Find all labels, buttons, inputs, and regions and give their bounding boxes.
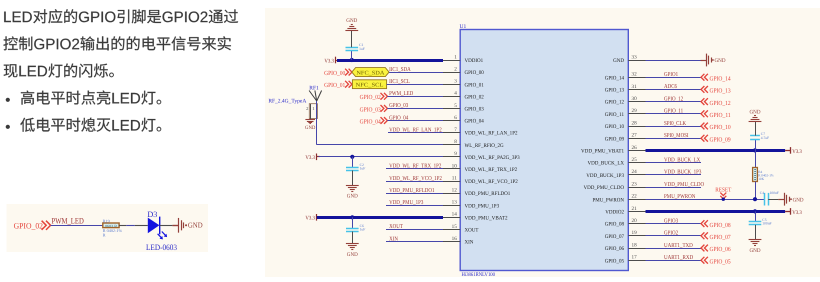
svg-text:GPIO_11: GPIO_11 — [664, 109, 683, 115]
svg-text:VDD_BUCK_1P3: VDD_BUCK_1P3 — [586, 173, 624, 179]
power port V3.3 (pin 21) — [785, 211, 791, 213]
svg-text:GPIO_13: GPIO_13 — [605, 88, 625, 94]
pin 27 GPIO_09 stub — [628, 138, 645, 140]
pin 8 WL_RF_RFIO_2G stub — [443, 144, 460, 146]
junction node RESET on PMU_PWRON — [722, 198, 725, 201]
svg-text:GPIO1: GPIO1 — [664, 72, 678, 78]
svg-text:5: 5 — [454, 103, 457, 109]
pin 9 VDD_WL_RF_PA2G_3P3 stub — [443, 156, 460, 158]
svg-text:GPIO_12: GPIO_12 — [605, 100, 625, 106]
svg-text:14: 14 — [452, 212, 458, 218]
svg-text:SPI0_MOSI: SPI0_MOSI — [664, 133, 689, 139]
svg-text:VDD_PMU_1P3: VDD_PMU_1P3 — [465, 203, 500, 209]
pin 26 VDD_PMU_VBAT1 stub — [628, 150, 645, 152]
svg-text:1: 1 — [454, 54, 457, 60]
svg-text:GPIO_13: GPIO_13 — [710, 88, 731, 95]
wire capacitor C7 to ground — [755, 122, 757, 136]
svg-text:VDD_PMU_CLDO: VDD_PMU_CLDO — [584, 185, 625, 191]
svg-text:PWM_LED: PWM_LED — [389, 91, 414, 97]
svg-text:19: 19 — [632, 230, 638, 236]
pin 1 VDDIO1 stub — [443, 60, 460, 62]
svg-text:28: 28 — [632, 120, 638, 126]
pin 25 VDD_BUCK_LX stub — [628, 162, 645, 164]
svg-text:GPIO_14: GPIO_14 — [605, 75, 625, 81]
svg-text:UART1_TXD: UART1_TXD — [664, 243, 693, 249]
bullet point 2 — [6, 125, 10, 129]
wire capacitor C6 to ground — [352, 232, 354, 244]
wire GPIO_02 to resistor R19 — [51, 225, 103, 227]
svg-text:WL_RF_RFIO_2G: WL_RF_RFIO_2G — [465, 143, 504, 149]
pin 29 GPIO_11 stub — [628, 113, 645, 115]
svg-text:GPIO2: GPIO2 — [664, 231, 678, 237]
wire IIC1_SDA — [389, 72, 443, 74]
svg-text:GPIO_14: GPIO_14 — [710, 75, 732, 82]
ground below C2 — [346, 185, 359, 187]
svg-text:GPIO_03: GPIO_03 — [465, 107, 485, 113]
ground below C6 — [346, 243, 359, 245]
svg-text:GPIO_07: GPIO_07 — [605, 234, 625, 240]
svg-text:17: 17 — [632, 255, 638, 261]
antenna RF1 symbol — [309, 91, 322, 102]
port GPIO_14 — [701, 74, 708, 81]
svg-text:VDD_WL_RF_LAN_1P2: VDD_WL_RF_LAN_1P2 — [389, 127, 442, 133]
wire VDD_WL_RF_VCO_1P2 — [386, 181, 443, 183]
svg-text:GND: GND — [347, 252, 358, 258]
svg-text:VDD_WL_RF_PA2G_3P3: VDD_WL_RF_PA2G_3P3 — [465, 155, 520, 161]
svg-text:VDD_PMU_VBAT1: VDD_PMU_VBAT1 — [581, 149, 624, 155]
junction node on pin 14 bus — [350, 215, 354, 219]
svg-text:GPIO_03: GPIO_03 — [389, 103, 408, 109]
svg-text:27: 27 — [632, 133, 638, 139]
svg-text:IIC1_SCL: IIC1_SCL — [389, 79, 410, 85]
svg-text:RESET: RESET — [715, 187, 731, 193]
svg-text:18: 18 — [632, 242, 638, 248]
pin 20 GPIO_08 stub — [628, 223, 645, 225]
ground below antenna — [305, 119, 315, 121]
svg-text:30: 30 — [632, 96, 638, 102]
wire V3.3 bus to pin 14 — [317, 216, 443, 219]
svg-text:C4: C4 — [760, 191, 764, 195]
svg-text:R: R — [103, 233, 106, 238]
wire UART1_TXD — [646, 248, 702, 250]
svg-text:GPIO_06: GPIO_06 — [710, 246, 731, 253]
LED D3 light arrows — [158, 234, 162, 238]
svg-text:V3.3: V3.3 — [324, 58, 334, 64]
svg-text:GPIO_08: GPIO_08 — [605, 222, 625, 228]
wire junction to capacitor C2 — [352, 157, 354, 167]
svg-text:GPIO_02: GPIO_02 — [360, 94, 381, 101]
wire antenna pin 1 down — [316, 101, 318, 145]
svg-text:GPIO_07: GPIO_07 — [710, 234, 731, 241]
LED D3 — [148, 218, 160, 234]
svg-text:GPIO_00: GPIO_00 — [465, 70, 485, 76]
pin 16 XIN stub — [443, 241, 460, 243]
pin 3 GPIO_01 stub — [443, 84, 460, 86]
svg-text:7: 7 — [454, 127, 457, 133]
svg-text:RF1: RF1 — [309, 85, 319, 91]
port GPIO_09 — [701, 135, 708, 142]
junction node on pin 21 bus — [753, 209, 757, 213]
svg-text:1uF: 1uF — [360, 228, 366, 232]
wire resistor R4 to PMU_PWRON net — [755, 182, 757, 200]
svg-text:10K: 10K — [758, 177, 764, 181]
svg-text:23: 23 — [632, 181, 638, 187]
svg-text:21: 21 — [632, 206, 638, 212]
svg-text:32: 32 — [632, 72, 638, 78]
wire capacitor C1 to ground — [351, 30, 353, 47]
pin 2 GPIO_00 stub — [443, 72, 460, 74]
pin 12 VDD_PMU_RFLDO1 stub — [443, 193, 460, 195]
pin 28 GPIO_10 stub — [628, 126, 645, 128]
pin 33 GND stub — [628, 60, 645, 62]
pin 5 GPIO_03 stub — [443, 108, 460, 110]
svg-text:15: 15 — [452, 224, 458, 230]
svg-text:VDD_WL_RF_VCO_1P2: VDD_WL_RF_VCO_1P2 — [389, 176, 442, 182]
wire GPIO_11 — [646, 113, 702, 115]
wire VDD_BUCK_LX — [646, 162, 702, 164]
capacitor C2 — [346, 167, 359, 169]
svg-text:16: 16 — [452, 236, 458, 242]
svg-text:0603 R: 0603 R — [105, 224, 118, 228]
pin 6 GPIO_04 stub — [443, 120, 460, 122]
junction node resistor R4 on PMU_PWRON — [753, 197, 757, 201]
svg-text:8: 8 — [454, 139, 457, 145]
svg-text:PWM_LED: PWM_LED — [52, 217, 84, 226]
wire VDD_PMU_CLDO — [646, 187, 702, 189]
svg-text:ADC6: ADC6 — [664, 84, 677, 90]
svg-text:4: 4 — [454, 91, 457, 97]
wire SPI0_CLK — [646, 126, 702, 128]
svg-text:VDD_PMU_1P3: VDD_PMU_1P3 — [389, 200, 423, 206]
ground above C7 — [749, 121, 762, 123]
svg-text:GPIO_04: GPIO_04 — [465, 119, 485, 125]
svg-text:VDDIO2: VDDIO2 — [605, 210, 624, 216]
svg-text:12: 12 — [452, 188, 458, 194]
svg-text:V3.3: V3.3 — [305, 216, 315, 222]
Chinese description text — [4, 9, 238, 23]
wire LED D3 to ground — [160, 225, 173, 227]
pin 21 VDDIO2 stub — [628, 211, 645, 213]
svg-text:6: 6 — [454, 115, 457, 121]
svg-text:LED-0603: LED-0603 — [146, 243, 177, 252]
svg-text:100nF: 100nF — [770, 191, 779, 195]
svg-text:9: 9 — [454, 151, 457, 157]
main schematic cream background — [265, 8, 820, 277]
ground at pin 33 — [701, 60, 707, 62]
svg-text:VDD_WL_RF_TRX_1P2: VDD_WL_RF_TRX_1P2 — [389, 164, 441, 170]
svg-text:GPIO_00: GPIO_00 — [324, 70, 345, 77]
port GPIO_11 — [701, 110, 708, 117]
wire PMU_PWRON — [646, 199, 765, 201]
junction node on pin 26 bus — [753, 148, 757, 152]
wire GPIO_04 — [387, 120, 443, 122]
wire VDD_PMU_1P3 — [386, 205, 443, 207]
pin 19 GPIO_07 stub — [628, 235, 645, 237]
wire pin 33 to ground — [646, 60, 701, 62]
port GPIO_10 — [701, 123, 708, 130]
svg-text:XOUT: XOUT — [389, 224, 403, 230]
pin 15 XOUT stub — [443, 229, 460, 231]
ground right of LED (GND) — [172, 225, 178, 227]
svg-text:V3.3: V3.3 — [792, 210, 802, 216]
svg-text:20: 20 — [632, 218, 638, 224]
wire junction down to capacitor C5 — [755, 211, 757, 221]
svg-text:GPIO_04: GPIO_04 — [389, 115, 408, 121]
wire V3.3 to pin 9 — [319, 156, 444, 158]
svg-text:29: 29 — [632, 108, 638, 114]
svg-text:R19: R19 — [103, 218, 110, 223]
svg-text:VDD_BUCK_LX: VDD_BUCK_LX — [664, 157, 701, 163]
svg-text:GPIO_05: GPIO_05 — [710, 258, 731, 265]
svg-text:XOUT: XOUT — [465, 228, 480, 234]
svg-text:GPIO_09: GPIO_09 — [605, 136, 625, 142]
pin 30 GPIO_12 stub — [628, 101, 645, 103]
svg-text:3: 3 — [454, 79, 457, 85]
capacitor C6 — [346, 228, 359, 230]
svg-text:PMU_PWRON: PMU_PWRON — [593, 197, 625, 203]
svg-text:GPIO_02: GPIO_02 — [14, 221, 43, 230]
pin 23 VDD_PMU_CLDO stub — [628, 187, 645, 189]
highlight tag NFC_SCL — [352, 80, 386, 89]
svg-text:VDDIO1: VDDIO1 — [465, 58, 484, 64]
power port V3.3 (pin 26) — [785, 150, 791, 152]
capacitor C1 — [346, 47, 359, 49]
svg-text:GPIO_10: GPIO_10 — [710, 124, 731, 131]
svg-text:RF_2.4G_TypeA: RF_2.4G_TypeA — [268, 99, 306, 105]
svg-text:SPI0_CLK: SPI0_CLK — [664, 121, 687, 127]
capacitor C5 — [749, 221, 762, 223]
svg-text:25: 25 — [632, 157, 638, 163]
svg-text:VDD_WL_RF_TRX_1P2: VDD_WL_RF_TRX_1P2 — [465, 167, 518, 173]
wire GPIO2 — [646, 235, 702, 237]
pin 11 VDD_WL_RF_VCO_1P2 stub — [443, 181, 460, 183]
svg-text:V3.3: V3.3 — [305, 155, 315, 161]
svg-text:26: 26 — [632, 145, 638, 151]
svg-text:GPIO_09: GPIO_09 — [710, 136, 731, 143]
wire antenna pin 2 to ground — [310, 104, 312, 120]
pin 24 VDD_BUCK_1P3 stub — [628, 174, 645, 176]
svg-text:PMU_PWRON: PMU_PWRON — [664, 194, 696, 200]
bullet point 1 — [6, 98, 10, 102]
svg-text:10: 10 — [452, 163, 458, 169]
wire capacitor C4 to ground — [768, 199, 778, 201]
antenna RF1 body outline — [309, 104, 317, 119]
svg-text:U1: U1 — [460, 24, 467, 30]
wire GPIO_03 — [387, 108, 443, 110]
svg-text:2: 2 — [454, 67, 457, 73]
pin 10 VDD_WL_RF_TRX_1P2 stub — [443, 168, 460, 170]
port GPIO_12 — [701, 98, 708, 105]
junction node on V3.3 bus — [350, 58, 354, 62]
pin 17 GPIO_05 stub — [628, 260, 645, 262]
svg-text:GPIO_04: GPIO_04 — [360, 118, 382, 125]
svg-text:24: 24 — [632, 169, 638, 175]
wire resistor R19 to LED D3 — [119, 225, 126, 227]
port GPIO_13 — [701, 86, 708, 93]
svg-text:VDD_PMU_RFLDO1: VDD_PMU_RFLDO1 — [389, 188, 434, 194]
svg-text:GPIO_05: GPIO_05 — [605, 258, 625, 264]
port GPIO_06 — [701, 245, 708, 252]
wire capacitor C2 to ground — [352, 171, 354, 186]
svg-text:GND: GND — [188, 221, 203, 230]
ground above C1 — [345, 30, 358, 32]
svg-text:XIN: XIN — [465, 240, 474, 246]
pin 22 PMU_PWRON stub — [628, 199, 645, 201]
pin 18 GPIO_06 stub — [628, 248, 645, 250]
svg-text:IIC1_SDA: IIC1_SDA — [389, 67, 411, 73]
svg-text:GPIO_02: GPIO_02 — [465, 94, 485, 100]
wire XIN — [386, 241, 443, 243]
svg-text:VDD_WL_RF_VCO_1P2: VDD_WL_RF_VCO_1P2 — [465, 179, 519, 185]
svg-text:GND: GND — [715, 58, 726, 64]
svg-text:XIN: XIN — [389, 236, 398, 242]
svg-text:GND: GND — [750, 109, 761, 115]
pin 31 GPIO_13 stub — [628, 89, 645, 91]
svg-text:VDD_BUCK_1P3: VDD_BUCK_1P3 — [664, 170, 701, 176]
svg-text:GPIO_01: GPIO_01 — [324, 82, 345, 89]
svg-text:GPIO_12: GPIO_12 — [664, 96, 683, 102]
svg-text:GND: GND — [346, 18, 357, 24]
svg-text:GPIO3: GPIO3 — [664, 218, 678, 224]
pin 14 VDD_PMU_VBAT2 stub — [443, 217, 460, 219]
junction node (pin 9 rail) — [350, 155, 354, 159]
resistor R19 — [103, 223, 119, 228]
wire GPIO3 — [646, 223, 702, 225]
svg-text:R 0402-1%: R 0402-1% — [103, 228, 123, 233]
svg-text:11: 11 — [452, 175, 457, 181]
svg-text:1uF: 1uF — [359, 47, 365, 51]
svg-text:GPIO_12: GPIO_12 — [710, 100, 731, 107]
wire VDD_PMU_RFLDO1 — [386, 193, 443, 195]
svg-text:1uF: 1uF — [360, 167, 366, 171]
wire VDD_BUCK_1P3 — [646, 174, 702, 176]
wire junction up to capacitor C7 — [755, 139, 757, 150]
port GPIO_08 — [701, 220, 708, 227]
wire V3.3 bus from pin 21 — [646, 210, 786, 213]
svg-text:NFC_SDA: NFC_SDA — [356, 70, 384, 76]
svg-text:VDD_PMU_CLDO: VDD_PMU_CLDO — [664, 182, 705, 188]
wire capacitor C5 to ground — [755, 225, 757, 240]
svg-text:D3: D3 — [147, 210, 157, 219]
svg-text:GPIO_01: GPIO_01 — [465, 82, 485, 88]
wire antenna to pin 8 WL_RF_RFIO_2G — [317, 144, 443, 146]
wire UART1_RXD — [646, 260, 702, 262]
wire VDD_WL_RF_TRX_1P2 — [386, 168, 443, 170]
svg-text:GND: GND — [613, 58, 624, 64]
pin 13 VDD_PMU_1P3 stub — [443, 205, 460, 207]
wire V3.3 bus to pin 1 — [337, 59, 443, 62]
svg-text:100nF: 100nF — [762, 222, 771, 226]
capacitor C4 — [764, 193, 766, 206]
svg-text:4.7uF: 4.7uF — [761, 136, 769, 140]
wire junction to capacitor C1 — [351, 51, 353, 60]
svg-text:VDD_WL_RF_LAN_1P2: VDD_WL_RF_LAN_1P2 — [465, 131, 518, 137]
capacitor C7 — [750, 139, 760, 141]
svg-text:31: 31 — [632, 84, 638, 90]
highlight tag NFC_SDA — [352, 68, 389, 77]
wire XOUT — [386, 229, 443, 231]
pin 32 GPIO_14 stub — [628, 77, 645, 79]
svg-text:Hi3861RNLV100: Hi3861RNLV100 — [462, 272, 496, 278]
svg-text:GND: GND — [793, 197, 804, 203]
ground below C5 — [749, 239, 762, 241]
wire GPIO_12 — [646, 101, 702, 103]
svg-text:GND: GND — [750, 248, 761, 254]
svg-text:VDD_BUCK_LX: VDD_BUCK_LX — [588, 161, 625, 167]
svg-text:GPIO_11: GPIO_11 — [710, 112, 731, 119]
svg-text:33: 33 — [632, 54, 638, 60]
svg-text:13: 13 — [452, 200, 458, 206]
svg-text:V3.3: V3.3 — [792, 149, 802, 155]
svg-text:22: 22 — [632, 194, 638, 200]
op-amp U1 body (Hi3861 IC) — [460, 30, 628, 271]
svg-text:GPIO_11: GPIO_11 — [605, 112, 625, 118]
wire junction down to resistor R4 — [755, 150, 757, 167]
svg-text:GND: GND — [347, 194, 358, 200]
wire ADC6 — [646, 89, 702, 91]
wire VDD_WL_RF_LAN_1P2 — [388, 132, 443, 134]
wire PWM_LED — [387, 96, 443, 98]
svg-text:GND: GND — [305, 125, 316, 131]
pin 7 VDD_WL_RF_LAN_1P2 stub — [443, 132, 460, 134]
wire V3.3 bus from pin 26 — [646, 149, 786, 152]
svg-text:GPIO_08: GPIO_08 — [710, 222, 731, 229]
svg-text:NFC_SCL: NFC_SCL — [356, 82, 385, 88]
svg-text:GPIO_06: GPIO_06 — [605, 246, 625, 252]
pin 4 GPIO_02 stub — [443, 96, 460, 98]
svg-text:GPIO_10: GPIO_10 — [605, 124, 625, 130]
wire SPI0_MOSI — [646, 138, 702, 140]
resistor R4 — [753, 168, 758, 182]
LED sub-circuit cream background — [7, 204, 209, 252]
port GPIO_05 — [701, 257, 708, 264]
wire junction to capacitor C6 — [352, 217, 354, 228]
ground right of C4 — [778, 199, 784, 201]
wire GPIO1 — [646, 77, 702, 79]
port GPIO_07 — [701, 232, 708, 239]
svg-text:VDD_PMU_VBAT2: VDD_PMU_VBAT2 — [465, 215, 508, 221]
svg-text:UART1_RXD: UART1_RXD — [664, 255, 694, 261]
svg-text:GPIO_03: GPIO_03 — [360, 106, 381, 113]
svg-text:VDD_PMU_RFLDO1: VDD_PMU_RFLDO1 — [465, 191, 511, 197]
wire IIC1_SCL — [387, 84, 443, 86]
